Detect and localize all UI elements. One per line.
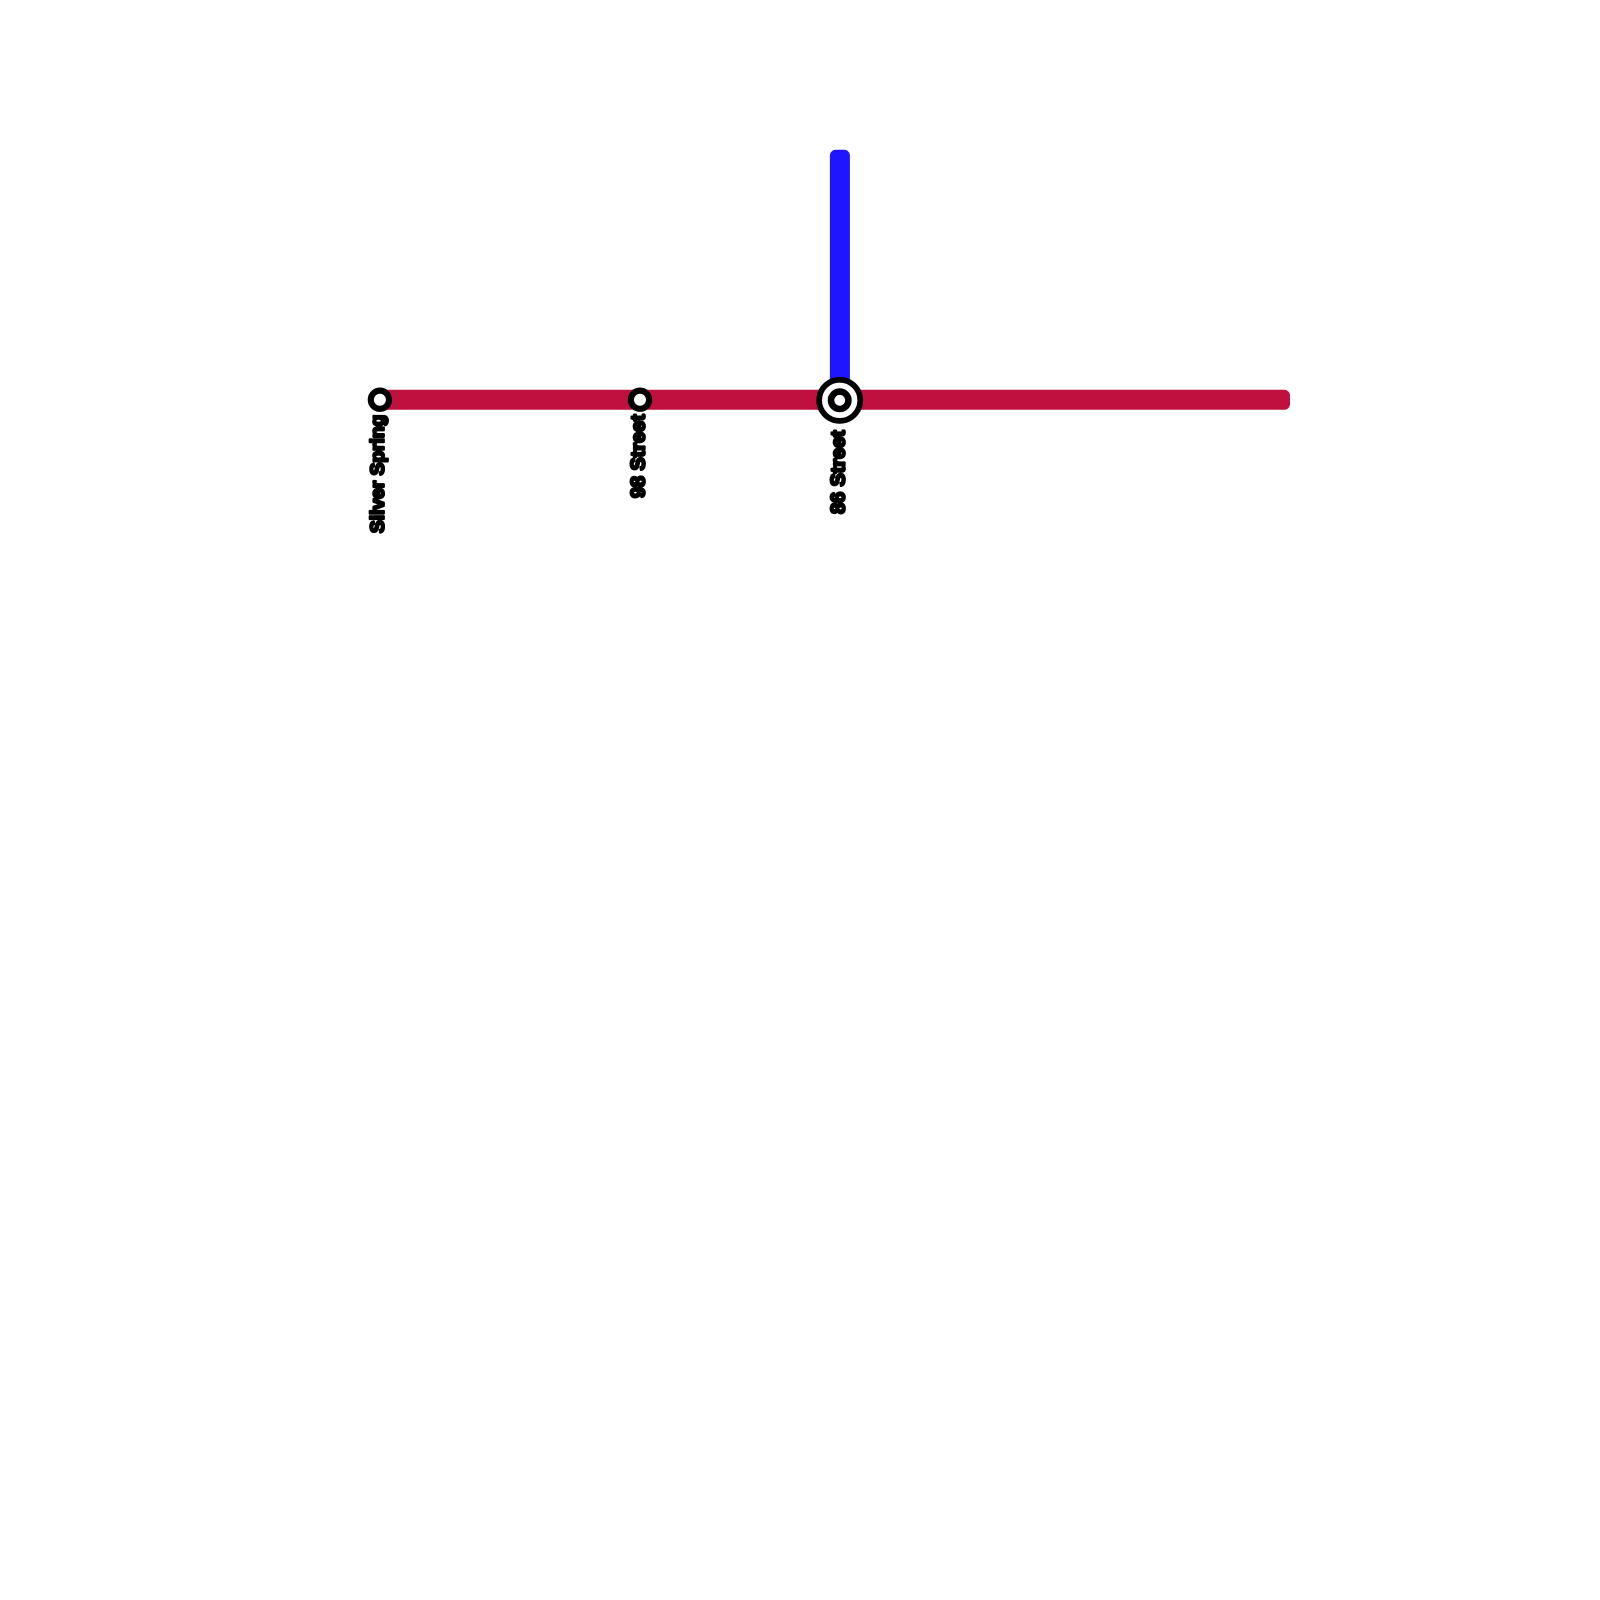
label 98 Street xyxy=(631,415,645,498)
interchange station 86 Street inner ring xyxy=(831,392,848,409)
interchange station 86 Street outer ring xyxy=(819,380,860,421)
label Silver Spring xyxy=(370,416,388,533)
blue line (Blue Line north branch into 86 Street) xyxy=(830,150,850,406)
red line (Red Line from Silver Spring eastward) xyxy=(370,390,1290,410)
station Silver Spring xyxy=(371,391,389,409)
label 86 Street xyxy=(831,431,845,514)
station 98 Street xyxy=(631,391,649,409)
